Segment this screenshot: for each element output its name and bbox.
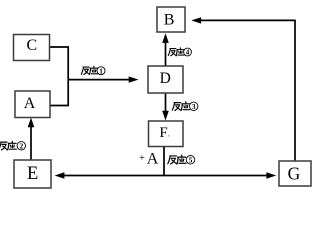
svg-text:D: D — [160, 70, 171, 87]
svg-text:2: 2 — [19, 142, 23, 151]
svg-text:E: E — [27, 164, 38, 184]
svg-text:+: + — [139, 153, 145, 164]
svg-text:B: B — [164, 12, 175, 29]
svg-text:1: 1 — [99, 67, 103, 75]
svg-text:F: F — [159, 125, 167, 141]
svg-text:5: 5 — [189, 156, 193, 165]
svg-text:A: A — [24, 95, 36, 112]
svg-text:3: 3 — [192, 102, 196, 111]
svg-text:G: G — [288, 163, 301, 183]
svg-text:4: 4 — [186, 49, 190, 57]
svg-text:C: C — [26, 37, 37, 54]
svg-text:A: A — [147, 151, 159, 168]
